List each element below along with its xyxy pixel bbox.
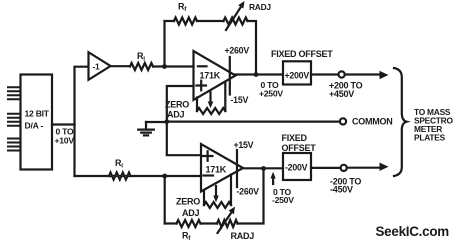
resistor Ri (top input resistor)	[130, 63, 153, 70]
svg-text:Ri: Ri	[115, 158, 123, 170]
wire: common rail from node D to common terminal	[167, 120, 340, 122]
D/A digital input bit lines group 1	[8, 87, 21, 99]
svg-text:ADJ: ADJ	[167, 109, 184, 119]
potentiometer RADJ bottom adjustment arrow	[218, 213, 232, 233]
U2 supply pin line	[236, 150, 238, 187]
wire: -200V box to output terminal J2	[311, 167, 341, 169]
wire: top feedback rail right segment down to node C	[248, 21, 257, 75]
svg-text:-15V: -15V	[231, 95, 249, 105]
wire: U1 output to node C	[236, 73, 284, 75]
node E junction dot	[162, 174, 167, 179]
wire with arrow: J2 to mass spectrometer plates (bottom)	[347, 167, 383, 169]
wire: D/A output to node A	[52, 123, 75, 125]
svg-text:D/A -: D/A -	[25, 121, 44, 131]
U1 positive supply pin line	[229, 57, 231, 95]
wire: between Rf and RADJ top	[197, 20, 224, 22]
svg-text:ZERO: ZERO	[176, 197, 200, 207]
wire: bottom input rail to U2 minus input	[75, 175, 202, 177]
svg-text:-1: -1	[93, 61, 101, 71]
D/A digital input bit lines group 3	[8, 139, 21, 151]
wire: node A up to inverter input	[75, 67, 89, 125]
svg-text:12 BIT: 12 BIT	[25, 109, 50, 119]
wire: plus input of U1 to ground branch	[167, 86, 194, 122]
fixed offset source B2 -200V box	[283, 153, 311, 180]
wire with arrow: J1 to mass spectrometer plates (top)	[345, 73, 383, 75]
wire: U2 output to node F	[243, 167, 283, 169]
P1 wiper arrow	[209, 92, 211, 104]
svg-text:+15V: +15V	[234, 140, 254, 150]
wire: bottom feedback rail left segment	[165, 222, 177, 224]
polarity reference arrow (0 TO -250V)	[272, 177, 274, 184]
svg-text:Rf: Rf	[178, 2, 187, 14]
zero adjust potentiometer P2 (under U2)	[204, 202, 231, 208]
potentiometer RADJ (top)	[224, 18, 248, 25]
wire: ground to node D	[146, 121, 167, 123]
svg-text:COMMON: COMMON	[352, 117, 393, 127]
12 BIT D/A converter U3 box	[21, 75, 53, 170]
node F junction dot	[261, 166, 266, 171]
zero adjust potentiometer P1 (under U1)	[197, 108, 225, 114]
U2 inverting input minus sign	[204, 174, 214, 176]
svg-text:PLATES: PLATES	[414, 133, 446, 143]
terminal J1 (open circle)	[339, 71, 345, 77]
terminal J3 common (open circle)	[340, 118, 346, 124]
node D junction dot	[164, 119, 169, 124]
U2 non-inverting input plus sign	[203, 151, 213, 161]
wire: node B up to top feedback rail	[163, 21, 165, 67]
wire: top feedback rail left segment	[165, 20, 175, 22]
node B junction dot	[162, 64, 167, 69]
P2 left end stub	[203, 191, 205, 206]
wire: inverter output to resistor Ri top	[111, 65, 131, 67]
node C junction dot	[254, 72, 259, 77]
wire: +200V box to output terminal J1	[311, 73, 338, 75]
svg-text:171K: 171K	[200, 70, 221, 80]
svg-text:-260V: -260V	[237, 187, 260, 197]
op-amp A1 unity inverter (-1)	[89, 52, 111, 80]
svg-text:-200V: -200V	[285, 162, 308, 172]
wire: between bottom Rf and RADJ	[201, 222, 218, 224]
ground symbol	[138, 122, 154, 135]
op-amp U1 171K (top, high-voltage)	[194, 51, 236, 100]
wire: node E down to bottom feedback rail	[164, 176, 166, 224]
U1 inverting input minus sign	[198, 65, 207, 67]
svg-text:+200V: +200V	[285, 70, 310, 80]
wire: bottom feedback rail right segment up to node F	[238, 169, 264, 224]
svg-text:+10V: +10V	[55, 136, 75, 146]
svg-text:+260V: +260V	[225, 46, 250, 56]
svg-text:Rf: Rf	[182, 231, 191, 243]
svg-text:FIXED OFFSET: FIXED OFFSET	[271, 49, 333, 59]
potentiometer RADJ top adjustment arrow	[226, 8, 241, 31]
svg-text:ZERO: ZERO	[165, 100, 189, 110]
terminal J2 (open circle)	[341, 165, 347, 171]
svg-text:RADJ: RADJ	[231, 231, 255, 241]
resistor Rf (top feedback)	[174, 18, 197, 25]
wire: node A down to bottom input rail	[73, 125, 75, 177]
P2 right end stub	[230, 175, 232, 206]
resistor Ri (bottom input resistor) overlay	[109, 173, 131, 180]
svg-text:-250V: -250V	[272, 195, 294, 205]
wire: node D down to U2 plus input	[167, 122, 201, 155]
svg-text:171K: 171K	[206, 164, 227, 174]
svg-text:FIXED: FIXED	[282, 133, 308, 143]
op-amp U2 171K (bottom, high-voltage)	[201, 144, 243, 192]
wire: Ri to node B (summing junction)	[153, 65, 194, 67]
resistor Rf (bottom feedback)	[177, 220, 201, 227]
potentiometer RADJ (bottom)	[217, 220, 238, 227]
svg-text:+250V: +250V	[259, 89, 283, 99]
fixed offset source B1 +200V box	[283, 61, 311, 84]
U1 non-inverting input plus sign	[197, 81, 207, 91]
svg-text:-450V: -450V	[330, 185, 353, 195]
D/A digital input bit lines group 2	[8, 114, 21, 126]
svg-text:Ri: Ri	[137, 51, 145, 63]
P2 wiper arrow	[215, 186, 217, 197]
P1 right end stub	[224, 83, 226, 112]
svg-text:+450V: +450V	[329, 89, 354, 99]
P1 left end stub	[196, 98, 198, 112]
svg-text:RADJ: RADJ	[249, 2, 271, 12]
svg-text:ADJ: ADJ	[182, 208, 199, 218]
svg-text:SeekIC.com: SeekIC.com	[376, 224, 450, 239]
svg-text:OFFSET: OFFSET	[282, 143, 317, 153]
output group brace	[394, 68, 407, 176]
